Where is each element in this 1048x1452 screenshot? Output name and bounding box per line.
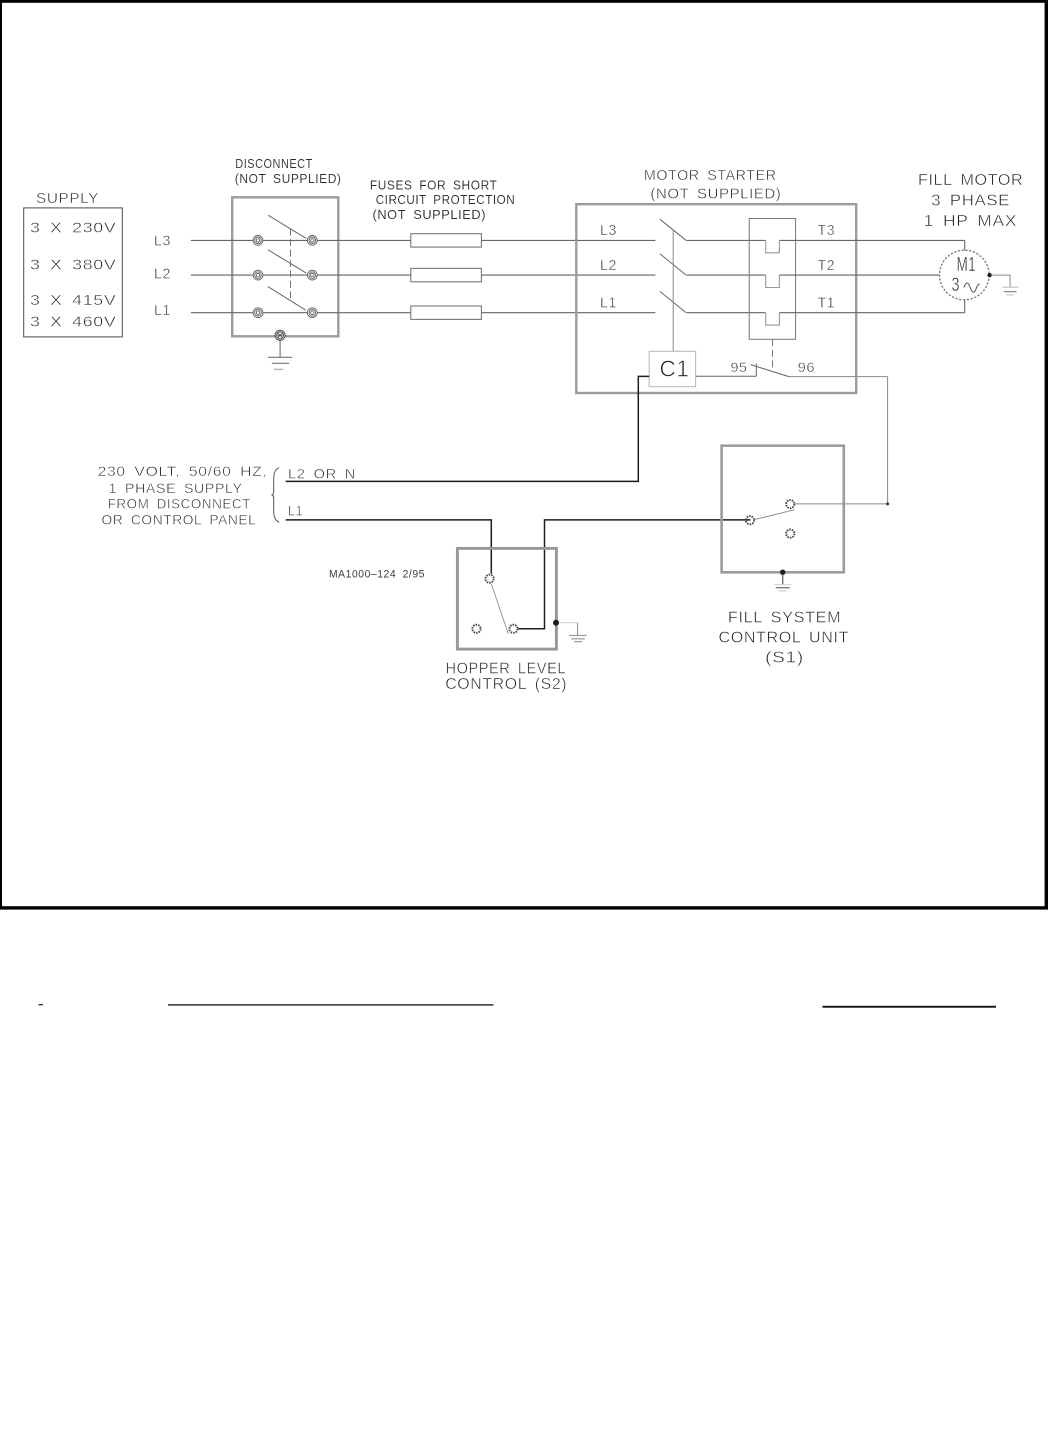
hopper switch blade <box>491 584 508 634</box>
S1 wire end dot <box>886 502 889 505</box>
brace <box>272 468 280 522</box>
svg-text:230 VOLT, 50/60 HZ,: 230 VOLT, 50/60 HZ, <box>98 463 268 479</box>
svg-text:(S1): (S1) <box>765 650 804 667</box>
wire L3 fuse to starter <box>481 239 655 241</box>
disconnect switch box <box>232 197 338 336</box>
contactor blade L1 <box>660 292 686 314</box>
wire L2 blade to overload <box>687 274 766 276</box>
overload relay box <box>749 219 795 340</box>
svg-text:SUPPLY: SUPPLY <box>36 190 99 207</box>
disconnect terminal L1 left <box>253 308 263 318</box>
wire T1 overload to corner <box>779 312 964 314</box>
wire L3 disconnect to fuse <box>317 239 410 241</box>
S1 terminal upper right <box>786 500 794 508</box>
svg-text:3 PHASE: 3 PHASE <box>931 193 1010 210</box>
disconnect linkage dashed <box>290 228 292 298</box>
svg-text:FILL SYSTEM: FILL SYSTEM <box>728 609 841 626</box>
svg-text:T3: T3 <box>818 222 836 239</box>
wire L1 disconnect to fuse <box>317 312 410 314</box>
svg-text:1 PHASE SUPPLY: 1 PHASE SUPPLY <box>109 480 243 496</box>
hopper terminal top <box>486 575 494 583</box>
wire T2 overload to motor <box>779 274 939 276</box>
svg-text:3 X 230V: 3 X 230V <box>30 219 117 236</box>
signature line right <box>823 1006 997 1008</box>
svg-text:95: 95 <box>731 359 748 375</box>
wire 96 to box edge <box>790 376 888 378</box>
wire T3 overload to corner <box>779 239 964 241</box>
S1 switch blade <box>754 510 794 520</box>
S1 ground <box>774 575 792 591</box>
hopper ground <box>569 636 587 642</box>
S1 terminal lower right <box>786 530 794 538</box>
wire L2 supply to disconnect <box>191 274 253 276</box>
hopper ground junction dot <box>553 620 559 626</box>
wire hopper control to S1 <box>518 520 750 629</box>
disconnect terminal L2 left <box>253 270 263 280</box>
svg-text:T2: T2 <box>818 257 836 274</box>
svg-text:L1: L1 <box>154 302 171 319</box>
disconnect ground <box>268 341 292 370</box>
signature line left <box>168 1004 494 1005</box>
overload trip linkage dashed <box>772 339 774 371</box>
disconnect blade L3 <box>268 215 306 238</box>
svg-text:DISCONNECT: DISCONNECT <box>235 156 312 171</box>
svg-text:L1: L1 <box>600 295 617 312</box>
svg-text:FROM DISCONNECT: FROM DISCONNECT <box>108 496 251 512</box>
svg-text:1 HP MAX: 1 HP MAX <box>924 213 1018 230</box>
wire T1 corner up to motor <box>964 300 966 313</box>
svg-text:3: 3 <box>952 275 961 296</box>
signature dash <box>39 1004 44 1005</box>
S1 terminal left <box>746 516 754 524</box>
svg-text:(NOT SUPPLIED): (NOT SUPPLIED) <box>235 171 342 186</box>
wire L2-or-N to C1 <box>286 376 650 481</box>
svg-text:(NOT SUPPLIED): (NOT SUPPLIED) <box>373 207 487 222</box>
fuse L3 <box>411 234 482 247</box>
overload heater L3 <box>766 240 780 252</box>
svg-text:T1: T1 <box>818 295 836 312</box>
contactor linkage <box>672 231 674 352</box>
motor M1 circle <box>940 250 990 300</box>
motor sine symbol <box>964 283 980 292</box>
motor ground <box>1002 287 1019 295</box>
wire L1 blade to overload <box>687 312 766 314</box>
disconnect terminal L2 right <box>307 270 317 280</box>
wire L3 supply to disconnect <box>191 239 253 241</box>
svg-text:3 X 415V: 3 X 415V <box>30 292 117 309</box>
wire L1 to hopper control <box>286 520 492 574</box>
hopper terminal bottom left <box>472 625 480 633</box>
supply voltage box <box>24 208 123 337</box>
disconnect terminal L3 left <box>253 236 263 246</box>
wire 96 down to control unit <box>887 377 889 504</box>
hopper terminal bottom middle <box>509 625 517 633</box>
svg-text:MOTOR STARTER: MOTOR STARTER <box>644 167 777 184</box>
svg-text:C1: C1 <box>660 356 690 382</box>
svg-text:CONTROL UNIT: CONTROL UNIT <box>719 630 850 647</box>
fuse L1 <box>411 306 482 319</box>
disconnect terminal L1 right <box>307 308 317 318</box>
svg-text:L2 OR N: L2 OR N <box>288 465 356 481</box>
contactor blade L3 <box>660 219 686 240</box>
svg-text:L2: L2 <box>600 257 617 274</box>
border frame left <box>0 0 2 910</box>
svg-text:M1: M1 <box>957 254 977 276</box>
disconnect ground terminal <box>275 330 285 340</box>
wire L2 disconnect to fuse <box>317 274 410 276</box>
wire L1 fuse to starter <box>481 312 655 314</box>
svg-text:96: 96 <box>798 359 816 375</box>
fuse L2 <box>411 268 482 281</box>
contactor coil C1 box <box>649 351 695 386</box>
border frame bottom <box>0 906 1048 909</box>
wire L3 disconnect internal <box>263 239 307 241</box>
overload heater L2 <box>766 275 780 287</box>
terminal 95 tick <box>755 363 757 376</box>
disconnect blade L2 <box>268 250 306 273</box>
wire L3 blade to overload <box>687 239 766 241</box>
hopper ground stem <box>577 623 579 635</box>
wire L1 supply to disconnect <box>191 312 253 314</box>
disconnect terminal L3 right <box>307 236 317 246</box>
contactor blade L2 <box>660 254 686 276</box>
overload NC blade 95-96 <box>751 365 790 377</box>
disconnect blade L1 <box>268 286 306 310</box>
svg-text:L3: L3 <box>154 232 171 249</box>
border frame top <box>0 0 1048 3</box>
svg-text:L2: L2 <box>154 266 171 283</box>
svg-text:HOPPER LEVEL: HOPPER LEVEL <box>446 660 567 677</box>
wire motor to ground <box>992 275 1010 287</box>
hopper ground wire <box>559 622 578 624</box>
svg-text:FILL MOTOR: FILL MOTOR <box>918 172 1023 189</box>
svg-text:MA1000–124 2/95: MA1000–124 2/95 <box>329 569 425 581</box>
svg-text:L1: L1 <box>288 503 303 519</box>
svg-text:3 X 460V: 3 X 460V <box>30 314 117 331</box>
hopper level control box <box>457 548 556 649</box>
svg-text:OR CONTROL PANEL: OR CONTROL PANEL <box>102 512 257 528</box>
wire L1 disconnect internal <box>263 312 307 314</box>
overload heater L1 <box>766 313 780 325</box>
svg-text:L3: L3 <box>600 222 617 239</box>
S1 ground terminal dot <box>780 570 785 575</box>
svg-text:3 X 380V: 3 X 380V <box>30 256 117 273</box>
wire T3 corner down to motor <box>964 240 966 250</box>
svg-text:CONTROL (S2): CONTROL (S2) <box>445 676 567 693</box>
svg-text:CIRCUIT PROTECTION: CIRCUIT PROTECTION <box>376 192 516 207</box>
wire L2 disconnect internal <box>263 274 307 276</box>
motor starter box <box>576 204 856 393</box>
border frame right <box>1045 0 1048 910</box>
svg-text:(NOT SUPPLIED): (NOT SUPPLIED) <box>650 185 781 202</box>
svg-text:FUSES FOR SHORT: FUSES FOR SHORT <box>370 178 498 193</box>
wire L2 fuse to starter <box>481 274 655 276</box>
wire C1 to terminal 95 <box>696 375 757 377</box>
fill system control unit box <box>722 446 844 573</box>
wire S1 terminal to 96 <box>795 503 887 505</box>
motor terminal junction dot <box>987 273 991 277</box>
